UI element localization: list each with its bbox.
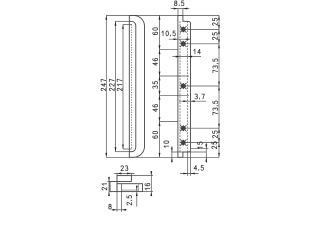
screw hole 5	[180, 139, 186, 145]
screw hole 1	[180, 26, 186, 32]
screw hole 2	[180, 41, 186, 47]
section view: band inner right edge	[137, 184, 139, 192]
section view: grip wall rect	[117, 176, 131, 182]
left dimension column	[159, 15, 161, 157]
section view: base band rect	[117, 184, 143, 192]
dim 14	[173, 56, 202, 58]
section view: band inner bottom edge	[122, 189, 139, 191]
dim 8.5	[177, 9, 179, 15]
screw hole 3	[180, 83, 186, 89]
dim 4.5	[187, 152, 189, 176]
dim 15 bottom right of strip	[191, 148, 209, 150]
section view: left tab rect	[110, 182, 117, 192]
screw hole 4	[180, 125, 186, 131]
dim 217 extensions and line	[123, 23, 132, 25]
front view: outer plate outline	[129, 15, 144, 157]
hole extension lines to right column	[186, 28, 219, 30]
side view: hidden dashed edge right	[187, 21, 189, 152]
dim 10.5	[169, 38, 190, 40]
dim 10 bottom of strip	[171, 151, 206, 153]
dim 21	[107, 181, 110, 183]
bottom extension line across views	[106, 156, 219, 158]
dim 8	[116, 192, 118, 212]
side view: hidden dashed edge left	[179, 21, 181, 152]
dim 247 line	[105, 15, 107, 157]
right dimension column	[218, 15, 220, 157]
right column labels 25/25/73.5/73.5/25/25	[212, 18, 217, 25]
dim 227 extensions and line	[116, 20, 132, 22]
label 227	[109, 79, 114, 91]
front view: inner recess outline	[129, 21, 136, 151]
arrowheads	[105, 8, 220, 211]
label 217	[117, 79, 122, 91]
left column labels 60/46/35/46/60	[153, 28, 158, 35]
top extension line across views	[106, 14, 219, 16]
left column tick extensions	[160, 49, 178, 51]
side view: strip outline with end steps	[178, 15, 191, 157]
front view: hidden dotted recess line	[131, 24, 133, 149]
dim 2.5	[136, 186, 138, 207]
dim 23	[116, 173, 118, 176]
dim 16	[131, 175, 153, 177]
dim 3.7	[179, 100, 206, 102]
label 247	[101, 79, 106, 91]
